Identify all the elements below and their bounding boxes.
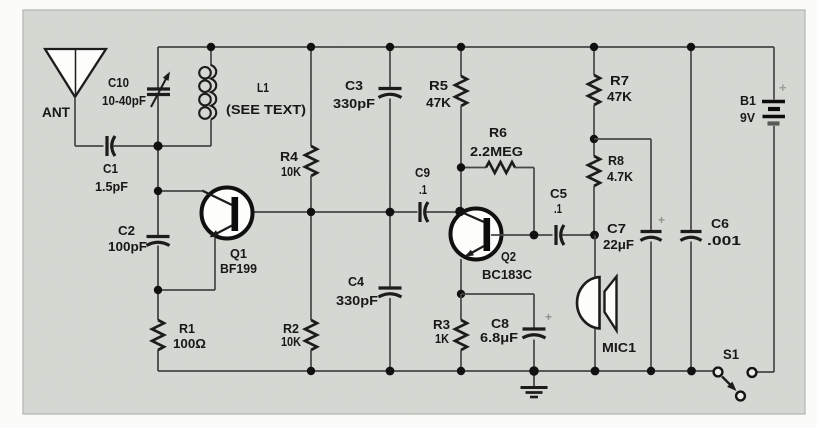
node C6 bottom / S1 feed xyxy=(687,367,696,376)
wire bottom ground rail xyxy=(158,370,714,372)
capacitor C8 xyxy=(523,327,546,330)
wire Q1 collector to left rail xyxy=(158,190,203,192)
svg-text:47K: 47K xyxy=(426,95,451,110)
svg-text:47K: 47K xyxy=(607,89,632,104)
transistor Q2 xyxy=(451,209,502,260)
resistor R5 xyxy=(455,76,467,106)
wire Q2 collector to C5 xyxy=(491,234,553,236)
svg-text:C9: C9 xyxy=(415,165,430,180)
svg-text:MIC1: MIC1 xyxy=(602,340,636,355)
svg-text:10K: 10K xyxy=(281,334,301,349)
wire R6 right lead xyxy=(515,167,535,169)
svg-text:BC183C: BC183C xyxy=(482,267,532,282)
wire right rail to S1 xyxy=(757,371,775,373)
svg-text:+: + xyxy=(779,80,787,95)
wire R7 top lead xyxy=(593,47,595,75)
wire Q1 emitter to R1 top xyxy=(158,289,215,291)
wire C8 top lead xyxy=(533,294,535,328)
wire C5 to R8/C7 node xyxy=(563,234,596,236)
svg-text:R6: R6 xyxy=(489,125,507,140)
wire left rail below R1 xyxy=(157,350,159,371)
svg-text:R7: R7 xyxy=(610,73,629,88)
transistor Q1 xyxy=(202,188,253,239)
antenna ANT xyxy=(45,49,106,97)
svg-text:.1: .1 xyxy=(554,201,562,216)
wire top supply rail xyxy=(158,46,774,48)
node Q1 collector / left rail junction xyxy=(154,187,162,195)
svg-text:R3: R3 xyxy=(433,317,450,332)
svg-text:4.7K: 4.7K xyxy=(607,169,633,184)
svg-text:10K: 10K xyxy=(281,164,301,179)
capacitor C3 xyxy=(379,87,402,90)
wire R8 bottom lead xyxy=(593,186,595,235)
node R5/R6 junction xyxy=(457,163,465,171)
wire C6 top lead xyxy=(690,47,692,231)
wire ground stem xyxy=(533,371,535,386)
wire left rail through C1/collector junctions xyxy=(157,96,159,236)
svg-text:R8: R8 xyxy=(608,153,624,168)
svg-text:Q1: Q1 xyxy=(230,246,247,261)
wire C1 to tank bottom node xyxy=(114,145,212,147)
wire C7 bottom lead xyxy=(650,242,652,372)
svg-text:S1: S1 xyxy=(723,346,739,362)
resistor R8 xyxy=(588,156,600,186)
node C3 top xyxy=(386,43,394,51)
wire Q2 emitter down xyxy=(460,259,462,294)
wire R3 top lead xyxy=(460,294,462,320)
svg-text:C10: C10 xyxy=(108,75,129,90)
wire C6 bottom lead xyxy=(690,242,692,372)
node L1 top xyxy=(207,43,215,51)
wire left rail below C2 xyxy=(157,246,159,321)
svg-text:9V: 9V xyxy=(740,110,755,125)
node C5/R8/MIC junction xyxy=(590,231,599,240)
svg-text:6.8μF: 6.8μF xyxy=(480,330,518,345)
svg-text:C6: C6 xyxy=(711,216,729,231)
wire R4 bottom lead xyxy=(310,176,312,212)
node R7 top xyxy=(590,43,598,51)
svg-text:330pF: 330pF xyxy=(336,293,378,308)
capacitor C1 xyxy=(105,136,108,156)
svg-text:.001: .001 xyxy=(707,233,741,248)
wire antenna to C1 xyxy=(75,145,104,147)
svg-text:R1: R1 xyxy=(179,321,195,336)
svg-text:B1: B1 xyxy=(740,93,756,108)
svg-text:1.5pF: 1.5pF xyxy=(95,179,128,194)
wire mid bus Q1 base to C9 xyxy=(239,211,418,213)
wire Q1 emitter down xyxy=(214,238,216,290)
node C1/C10/L1 junction xyxy=(153,141,162,150)
svg-text:R5: R5 xyxy=(429,78,448,93)
svg-text:1K: 1K xyxy=(435,331,449,346)
wire C3 top lead xyxy=(389,47,391,87)
svg-text:C1: C1 xyxy=(103,161,118,176)
svg-text:R4: R4 xyxy=(280,149,299,164)
capacitor C9 xyxy=(418,202,421,222)
svg-text:+: + xyxy=(545,310,552,324)
svg-text:BF199: BF199 xyxy=(220,261,257,276)
wire C4 bottom lead xyxy=(389,298,391,371)
wire L1 top lead xyxy=(210,47,212,66)
node R2 bottom xyxy=(307,367,315,375)
wire R6 to Q2 collector node xyxy=(533,168,535,236)
node MIC1 bottom xyxy=(591,367,600,376)
wire C7 top lead xyxy=(650,139,652,231)
wire C3 to C4 xyxy=(389,99,391,287)
svg-text:C5: C5 xyxy=(550,186,567,201)
capacitor C2 xyxy=(147,235,170,238)
resistor R4 xyxy=(305,146,317,176)
node C7 bottom xyxy=(647,367,655,375)
resistor R2 xyxy=(305,320,317,350)
svg-text:2.2MEG: 2.2MEG xyxy=(470,144,523,159)
wire left rail upper xyxy=(157,47,159,88)
capacitor C7 xyxy=(641,230,662,233)
node R5 top xyxy=(457,43,465,51)
wire C8 bottom lead xyxy=(533,340,535,372)
node R4/R2 mid bus xyxy=(307,208,315,216)
capacitor C6 xyxy=(681,230,702,233)
svg-text:330pF: 330pF xyxy=(333,96,375,111)
wire R3 bottom lead xyxy=(460,350,462,371)
svg-text:+: + xyxy=(658,213,665,227)
node R7/R8/C7 junction xyxy=(590,135,598,143)
svg-text:C7: C7 xyxy=(607,221,626,236)
svg-text:C2: C2 xyxy=(118,223,135,238)
node R4 top xyxy=(307,43,315,51)
node Q2 base junction xyxy=(455,207,465,217)
wire R5 bottom to Q2 base node xyxy=(460,106,462,212)
svg-text:100pF: 100pF xyxy=(108,239,147,254)
wire antenna lead down xyxy=(74,97,76,146)
svg-text:Q2: Q2 xyxy=(501,249,516,264)
svg-text:L1: L1 xyxy=(257,80,269,95)
resistor R1 xyxy=(152,320,164,350)
node ground junction xyxy=(529,366,539,376)
wire node to MIC1 xyxy=(594,235,596,277)
svg-text:10-40pF: 10-40pF xyxy=(102,93,146,108)
resistor R3 xyxy=(455,320,467,350)
wire C9 to Q2 base node xyxy=(426,211,458,213)
node collector/R6/C5 junction xyxy=(530,231,539,240)
capacitor C10 (variable, 10-40pF) xyxy=(147,87,170,90)
wire emitter node to C8 xyxy=(461,293,534,295)
node C4 bottom xyxy=(386,367,395,376)
wire R6 left lead xyxy=(461,167,486,169)
wire L1 bottom lead xyxy=(210,120,212,147)
capacitor C5 xyxy=(554,225,557,245)
node R3 bottom xyxy=(457,367,465,375)
wire R2 bottom lead xyxy=(310,350,312,371)
svg-text:ANT: ANT xyxy=(42,105,70,121)
node C3/C4 mid bus xyxy=(386,208,395,217)
svg-text:C8: C8 xyxy=(491,316,509,331)
battery B1 xyxy=(762,100,785,103)
node emitter/R1/C2 junction xyxy=(154,286,162,294)
wire R4 top lead xyxy=(310,47,312,146)
wire R2 top lead xyxy=(310,212,312,320)
microphone MIC1 xyxy=(577,277,600,329)
svg-text:(SEE TEXT): (SEE TEXT) xyxy=(226,102,306,117)
wire battery top lead xyxy=(773,47,775,100)
wire MIC1 to ground rail xyxy=(594,329,596,372)
svg-text:100Ω: 100Ω xyxy=(173,336,206,351)
wire R7/R8 node to C7 xyxy=(594,138,651,140)
wire R5 top lead xyxy=(460,47,462,76)
svg-text:C3: C3 xyxy=(345,78,363,93)
wire battery bottom / right rail xyxy=(773,126,775,372)
svg-text:22μF: 22μF xyxy=(603,237,634,252)
node C6 top xyxy=(687,43,695,51)
svg-text:C4: C4 xyxy=(348,274,365,289)
wire R7 to R8 xyxy=(593,105,595,156)
resistor R7 xyxy=(588,75,600,105)
capacitor C4 xyxy=(379,286,402,289)
node emitter/R3/C8 junction xyxy=(457,290,465,298)
svg-text:.1: .1 xyxy=(419,182,427,197)
